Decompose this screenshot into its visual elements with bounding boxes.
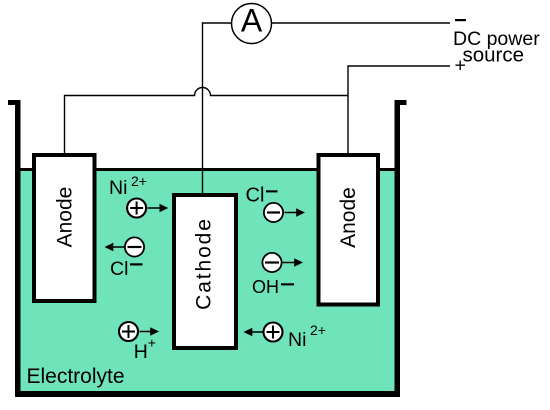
electrolyte surface line bbox=[20, 168, 395, 171]
tank bottom wall bbox=[15, 391, 400, 397]
tank left wall bbox=[8, 100, 21, 105]
svg-text:Ni: Ni bbox=[288, 329, 306, 351]
svg-text:source: source bbox=[463, 44, 525, 67]
svg-text:Cathode: Cathode bbox=[193, 217, 216, 310]
electrolyte liquid bbox=[20, 169, 395, 391]
ion: Cl- anion circle (right of cathode) bbox=[264, 203, 283, 222]
svg-text:H: H bbox=[134, 341, 148, 363]
arrow: Ni2+ to cathode (bottom) bbox=[251, 331, 263, 333]
svg-text:Electrolyte: Electrolyte bbox=[27, 365, 125, 388]
svg-text:OH: OH bbox=[252, 277, 279, 297]
cathode electrode bbox=[174, 195, 236, 348]
ion: Ni2+ cation circle (bottom) bbox=[264, 323, 283, 342]
svg-text:2+: 2+ bbox=[310, 322, 326, 338]
wire: ammeter left to cathode vertical bbox=[203, 23, 232, 195]
wire: ammeter right to negative terminal bbox=[272, 22, 451, 24]
svg-text:Anode: Anode bbox=[54, 187, 77, 248]
arrow: H+ to cathode bbox=[140, 331, 152, 333]
svg-text:Ni: Ni bbox=[109, 177, 127, 199]
svg-text:Anode: Anode bbox=[337, 187, 360, 248]
ion: OH- anion circle bbox=[262, 253, 281, 272]
arrow: Ni2+ to cathode bbox=[148, 207, 162, 209]
svg-text:+: + bbox=[455, 55, 466, 77]
svg-text:2+: 2+ bbox=[131, 173, 147, 189]
svg-text:+: + bbox=[148, 335, 156, 351]
svg-text:Cl: Cl bbox=[246, 185, 265, 207]
anode left electrode bbox=[34, 155, 95, 301]
wire: positive terminal to right anode bbox=[348, 66, 450, 155]
ion: H+ cation circle bbox=[119, 322, 138, 341]
ion: Cl- anion circle (left) bbox=[125, 237, 144, 256]
tank right wall bbox=[395, 100, 401, 397]
arrow: OH- to right anode bbox=[283, 262, 296, 264]
wire: anode bus with hop over cathode wire bbox=[65, 88, 349, 156]
svg-text:Cl: Cl bbox=[110, 258, 128, 280]
arrow: Cl- to left anode bbox=[112, 246, 124, 248]
arrow: Cl- to right anode bbox=[285, 212, 298, 214]
ion: Ni2+ cation circle (top left) bbox=[127, 199, 146, 218]
label: negative terminal bbox=[455, 19, 466, 21]
anode right electrode bbox=[319, 155, 379, 305]
ammeter U1 bbox=[232, 4, 272, 44]
svg-text:A: A bbox=[241, 3, 263, 39]
